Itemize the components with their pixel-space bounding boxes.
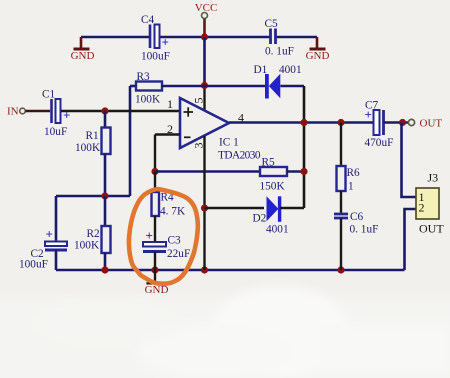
- svg-text:0. 1uF: 0. 1uF: [265, 46, 294, 58]
- junction pin2/R4/R5 node: [151, 168, 158, 175]
- svg-text:IN: IN: [7, 106, 19, 118]
- wire node row C2 to R3 vertical: [56, 195, 130, 198]
- svg-text:C6: C6: [350, 211, 364, 223]
- svg-text:22uF: 22uF: [167, 248, 190, 260]
- wire R3 left corner: [130, 85, 136, 88]
- svg-text:R2: R2: [87, 228, 101, 240]
- wire VCC junction to C5: [205, 36, 270, 39]
- diode D2 4001: [253, 196, 289, 235]
- wire R5 right to node: [287, 170, 304, 173]
- junction R3/D1 node: [201, 82, 208, 89]
- svg-text:100K: 100K: [135, 94, 161, 106]
- junction R5/D-rail node: [300, 168, 307, 175]
- capacitor C2: [19, 196, 67, 271]
- svg-text:+: +: [46, 227, 53, 242]
- svg-text:470uF: 470uF: [365, 137, 394, 149]
- svg-text:OUT: OUT: [420, 118, 443, 130]
- junction pin3/D2 node: [201, 204, 208, 211]
- junction output/D-rail: [300, 119, 307, 126]
- resistor R1: [75, 128, 111, 155]
- svg-text:4. 7K: 4. 7K: [160, 206, 186, 218]
- capacitor C5: [265, 18, 294, 58]
- capacitor C4: [141, 14, 170, 63]
- junction output/R6: [337, 119, 344, 126]
- capacitor C7: [365, 100, 394, 150]
- wire OUT node to J3 pin 1: [402, 123, 417, 198]
- ground GND top-left: [71, 37, 95, 62]
- junction VCC rail: [201, 33, 208, 40]
- wire pin 2 vertical to R5 node: [154, 135, 156, 172]
- junction C1/R1 node: [101, 107, 108, 114]
- junction C6 bottom: [337, 266, 344, 273]
- capacitor C6: [334, 211, 378, 236]
- wire op-amp pin 3 vertical to ground rail: [203, 136, 205, 270]
- wire R3 left vertical down: [129, 86, 132, 196]
- wire op-amp pin 5 stub: [203, 85, 205, 110]
- svg-text:D1: D1: [254, 64, 268, 76]
- wire junction to R1: [104, 111, 107, 128]
- svg-text:1: 1: [167, 97, 173, 111]
- svg-text:1: 1: [348, 181, 354, 193]
- svg-text:2: 2: [419, 201, 425, 215]
- svg-text:100K: 100K: [75, 142, 101, 154]
- svg-text:D2: D2: [253, 213, 267, 225]
- wire D2 right: [280, 207, 304, 209]
- svg-text:IC 1: IC 1: [219, 137, 239, 149]
- wire node to R4: [154, 172, 156, 193]
- wire C1 to op-amp pin 1: [61, 110, 180, 112]
- svg-text:+: +: [146, 228, 153, 243]
- resistor R6: [337, 166, 361, 193]
- wire R1 down to node: [104, 154, 107, 196]
- annotation orange circle highlight: [129, 189, 198, 284]
- output terminal OUT: [408, 118, 442, 130]
- svg-text:C1: C1: [42, 89, 55, 101]
- wire op-amp output pin 4: [229, 121, 373, 124]
- wire node to R2: [104, 196, 107, 226]
- svg-text:R5: R5: [262, 157, 276, 169]
- wire bottom ground rail: [56, 269, 405, 272]
- wire VCC junction down to R3/D1 node: [203, 37, 206, 86]
- connector J3: [416, 171, 444, 236]
- capacitor C3: [143, 228, 190, 270]
- wire top rail left segment (GND-L to C4): [81, 36, 150, 39]
- junction OUT/J3: [399, 119, 406, 126]
- power terminal VCC: [195, 2, 218, 37]
- resistor R5: [260, 157, 288, 193]
- svg-text:R1: R1: [86, 130, 99, 142]
- wire R2 to bottom rail: [104, 253, 107, 270]
- svg-text:GND: GND: [306, 50, 330, 62]
- wire junction to D1: [205, 85, 267, 88]
- svg-text:100uF: 100uF: [141, 51, 170, 63]
- svg-text:OUT: OUT: [419, 222, 444, 236]
- svg-text:100uF: 100uF: [19, 259, 48, 271]
- wire output node to R6: [340, 123, 342, 167]
- svg-text:GND: GND: [71, 50, 95, 62]
- wire R5 left: [155, 170, 260, 173]
- svg-text:+: +: [162, 35, 169, 50]
- svg-text:150K: 150K: [260, 181, 286, 193]
- wire R4 to C3: [154, 216, 156, 242]
- ground GND bottom: [145, 270, 169, 296]
- svg-text:C5: C5: [265, 18, 279, 30]
- svg-text:4001: 4001: [279, 64, 302, 76]
- svg-text:C4: C4: [141, 14, 155, 26]
- svg-text:R3: R3: [137, 71, 151, 83]
- svg-text:+: +: [63, 108, 70, 123]
- junction C3 bottom: [151, 266, 158, 273]
- svg-text:10uF: 10uF: [44, 126, 67, 138]
- ground GND top-right: [306, 37, 330, 62]
- input terminal IN: [7, 106, 50, 118]
- wire D1 to right corner: [281, 85, 305, 88]
- wire C6 to bottom rail: [340, 218, 342, 270]
- wire C4 to VCC junction: [160, 36, 205, 39]
- svg-text:100K: 100K: [74, 240, 100, 252]
- resistor R2: [74, 226, 111, 253]
- svg-text:R6: R6: [347, 167, 361, 179]
- svg-text:5: 5: [192, 98, 206, 104]
- wire D2 left: [205, 207, 265, 209]
- svg-text:C7: C7: [365, 100, 379, 112]
- wire bottom rail to J3 pin 2: [405, 209, 417, 270]
- resistor R3: [135, 71, 162, 106]
- diode D1 4001: [254, 64, 302, 99]
- junction R1/R2/C2 node: [101, 192, 108, 199]
- wire C5 to GND-R corner: [276, 36, 317, 39]
- junction C2/R2 bottom: [101, 266, 108, 273]
- svg-text:J3: J3: [428, 171, 439, 185]
- wire C7 to OUT: [384, 121, 409, 124]
- svg-text:C3: C3: [168, 235, 182, 247]
- svg-text:TDA2030: TDA2030: [218, 150, 261, 162]
- wire R3 to junction: [162, 85, 205, 88]
- wire right vertical D1 corner down to D2 corner: [303, 86, 306, 208]
- svg-text:4001: 4001: [266, 224, 289, 236]
- capacitor C1: [42, 89, 70, 139]
- junction pin3 bottom: [201, 266, 208, 273]
- op-amp U1 IC1 TDA2030: [180, 98, 261, 162]
- svg-text:0. 1uF: 0. 1uF: [350, 224, 379, 236]
- wire R6 to C6: [340, 191, 342, 213]
- resistor R4: [152, 192, 186, 218]
- wire op-amp pin 2 horizontal: [155, 133, 180, 135]
